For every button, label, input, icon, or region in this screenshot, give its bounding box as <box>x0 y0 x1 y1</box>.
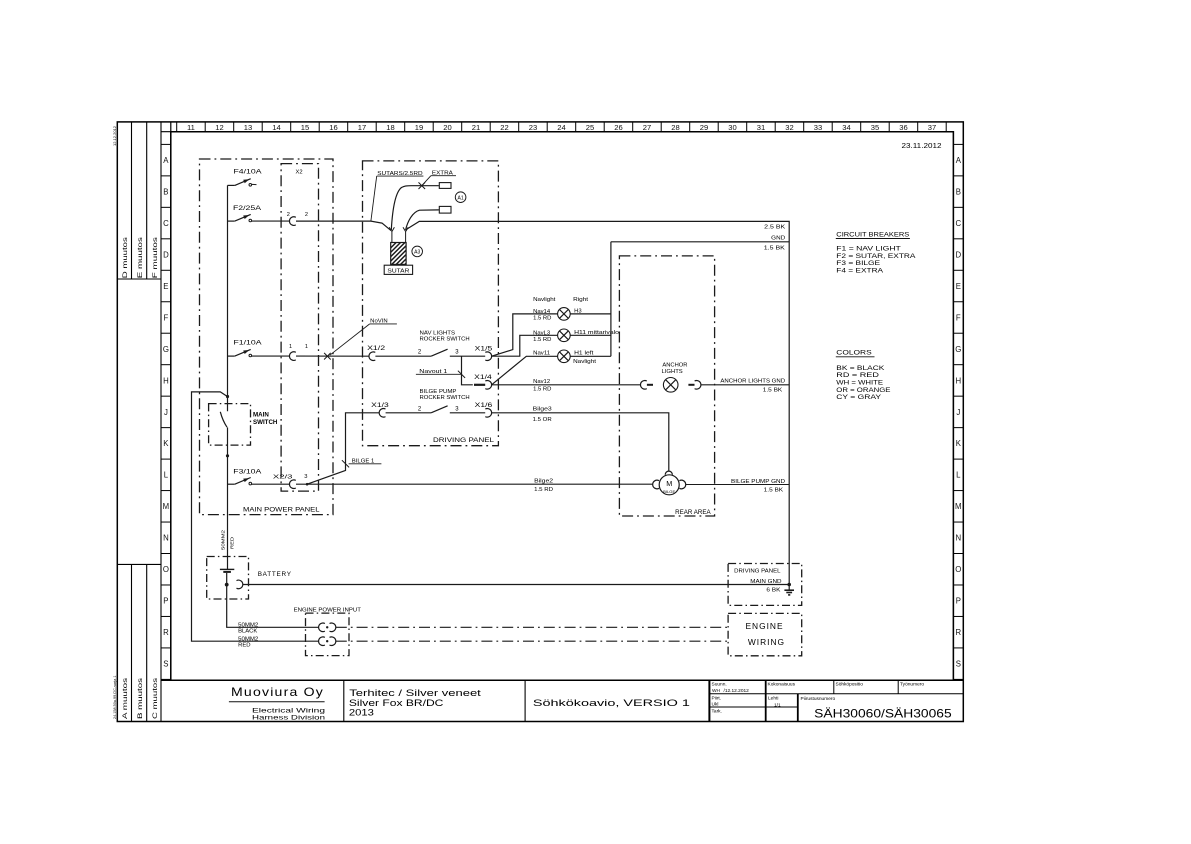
svg-text:Suunn.: Suunn. <box>712 681 727 687</box>
engine cable red run <box>336 640 728 642</box>
svg-text:A: A <box>956 156 962 165</box>
fuse F1 <box>228 349 252 356</box>
svg-text:31: 31 <box>757 123 765 132</box>
svg-text:23.11.2012: 23.11.2012 <box>902 143 942 150</box>
svg-text:H: H <box>163 376 169 385</box>
svg-text:17: 17 <box>358 123 366 132</box>
svg-text:WH = WHITE: WH = WHITE <box>836 380 883 386</box>
pump left connector <box>653 480 659 489</box>
svg-text:F3 = BILGE: F3 = BILGE <box>836 261 880 267</box>
wire F2 to X2 <box>252 220 290 222</box>
svg-text:2: 2 <box>305 212 308 218</box>
svg-text:Nav12: Nav12 <box>533 379 550 385</box>
lamp H1 <box>558 350 571 363</box>
bilge switch blade <box>431 406 448 413</box>
svg-text:19: 19 <box>415 123 423 132</box>
svg-text:X1/4: X1/4 <box>474 375 492 381</box>
svg-text:S: S <box>163 660 168 669</box>
wire switch to X1/6 <box>450 412 485 414</box>
svg-text:M: M <box>955 502 962 511</box>
svg-text:G: G <box>955 345 961 354</box>
anchor gnd wire <box>701 384 789 386</box>
svg-text:R: R <box>955 628 961 637</box>
junction node below main switch <box>226 454 229 457</box>
svg-text:F: F <box>956 313 961 322</box>
nav switch blade <box>431 349 448 356</box>
engine wiring box <box>728 613 802 655</box>
wire battery to engine black <box>227 585 319 628</box>
svg-text:MAIN: MAIN <box>253 412 269 419</box>
margin note bottom-left <box>113 676 117 719</box>
navout 1 label <box>416 369 461 375</box>
svg-text:2: 2 <box>287 212 290 218</box>
company name Muoviura Oy <box>229 686 325 721</box>
bilge 1 label <box>349 459 382 465</box>
bilge2 labels <box>534 479 553 494</box>
svg-text:18: 18 <box>386 123 394 132</box>
engine power input box <box>306 613 350 656</box>
extra wire tap mark <box>419 182 426 189</box>
anchor lights label <box>662 363 688 376</box>
title block frame <box>161 680 963 721</box>
project name cell <box>349 687 481 718</box>
svg-text:1.5 RD: 1.5 RD <box>533 387 552 393</box>
svg-text:WH: WH <box>712 688 721 694</box>
svg-text:RD = RED: RD = RED <box>836 373 880 379</box>
svg-text:2013: 2013 <box>349 706 374 717</box>
svg-text:12: 12 <box>215 123 223 132</box>
wire thick into X1/4 <box>474 384 485 386</box>
bilge3 wire to pump <box>492 413 669 472</box>
svg-text:C muutos: C muutos <box>152 678 159 719</box>
wire X1/5 to lamp H11 <box>492 335 558 356</box>
circuit breakers legend <box>836 231 916 274</box>
connector X1/2 <box>369 352 375 361</box>
fuse F3 <box>228 478 252 485</box>
svg-text:F muutos: F muutos <box>152 237 159 278</box>
fuse F4 stub <box>252 183 257 185</box>
svg-text:1.5 BK: 1.5 BK <box>763 388 783 394</box>
bilge gnd wire <box>686 484 790 486</box>
battery box <box>207 557 249 600</box>
svg-text:A3: A3 <box>414 250 420 256</box>
svg-text:1.5 OR: 1.5 OR <box>533 417 552 423</box>
bilge1 tap mark <box>342 460 349 467</box>
svg-text:Tark.: Tark. <box>712 709 722 715</box>
svg-text:X1/3: X1/3 <box>371 403 389 409</box>
wire X1/3 to switch <box>386 412 432 414</box>
wire X1/5 to lamp H3 <box>492 314 558 356</box>
svg-text:ROCKER SWITCH: ROCKER SWITCH <box>420 337 470 343</box>
svg-text:/12.12.2012: /12.12.2012 <box>724 688 750 694</box>
inner drawing frame <box>171 132 954 681</box>
svg-text:24: 24 <box>557 123 565 132</box>
svg-text:E muutos: E muutos <box>137 237 144 278</box>
svg-text:6 BK: 6 BK <box>766 587 781 593</box>
junction node above main switch <box>226 395 229 398</box>
svg-text:Navlight: Navlight <box>573 359 597 365</box>
svg-text:11: 11 <box>187 123 195 132</box>
svg-text:Electrical Wiring: Electrical Wiring <box>252 708 325 714</box>
svg-text:21: 21 <box>472 123 480 132</box>
NoVIN tap mark <box>324 353 331 360</box>
svg-text:Söhköpositio: Söhköpositio <box>836 681 864 687</box>
svg-text:C: C <box>955 219 961 228</box>
wire F1 to X2 <box>252 355 290 357</box>
svg-text:P: P <box>163 597 168 606</box>
svg-text:3: 3 <box>304 474 307 480</box>
lamp H3 <box>558 308 571 321</box>
svg-text:SÄH30060/SÄH30065: SÄH30060/SÄH30065 <box>814 708 952 721</box>
connector X1/3 <box>379 409 385 418</box>
svg-text:A: A <box>163 156 169 165</box>
svg-text:O: O <box>163 565 169 574</box>
svg-text:BATTERY: BATTERY <box>258 571 292 578</box>
svg-text:K: K <box>163 439 169 448</box>
top column-number strip <box>161 122 953 132</box>
svg-text:X1/2: X1/2 <box>367 346 386 352</box>
svg-text:GND: GND <box>771 236 785 242</box>
NoVIN label <box>330 319 397 356</box>
bilge pump rocker switch label <box>420 389 470 401</box>
svg-text:ANCHOR LIGHTS GND: ANCHOR LIGHTS GND <box>720 379 785 385</box>
svg-text:Kokonaisuus: Kokonaisuus <box>768 681 796 687</box>
svg-text:12.12.2012: 12.12.2012 <box>112 125 117 146</box>
svg-text:WIRING: WIRING <box>748 637 785 647</box>
svg-text:27: 27 <box>643 123 651 132</box>
svg-text:24.158.50a.99.DC-sarja 1: 24.158.50a.99.DC-sarja 1 <box>113 676 117 719</box>
wire switch to X1/5 <box>450 355 485 357</box>
svg-text:1.5 RD: 1.5 RD <box>534 487 553 493</box>
svg-text:Piirustusnumero: Piirustusnumero <box>801 696 836 702</box>
svg-text:1.5 BK: 1.5 BK <box>764 245 786 251</box>
wire X2 to X1/2 <box>296 355 369 357</box>
svg-text:26: 26 <box>614 123 622 132</box>
svg-text:25: 25 <box>586 123 594 132</box>
svg-text:1: 1 <box>289 344 292 350</box>
fuse F2 <box>228 214 252 221</box>
svg-text:E: E <box>163 282 168 291</box>
lamp return wires to common <box>570 242 611 356</box>
svg-text:H11 mittarivalo: H11 mittarivalo <box>574 330 619 336</box>
svg-text:M: M <box>163 502 170 511</box>
nav lamp labels <box>533 297 619 393</box>
row-letter strips <box>161 122 963 680</box>
svg-text:NAV LIGHTS: NAV LIGHTS <box>420 330 456 336</box>
svg-text:DRIVING PANEL: DRIVING PANEL <box>433 437 495 444</box>
svg-text:L: L <box>956 471 961 480</box>
svg-text:F1 = NAV LIGHT: F1 = NAV LIGHT <box>836 246 901 252</box>
fuse F4 <box>228 179 252 186</box>
svg-text:33: 33 <box>814 123 822 132</box>
svg-text:Työnumero: Työnumero <box>900 681 924 687</box>
svg-text:COLORS: COLORS <box>836 350 871 357</box>
bilge pump motor M1 <box>659 475 679 495</box>
engine input connector pin red <box>319 637 336 646</box>
svg-text:D muutos: D muutos <box>122 237 129 278</box>
revision table column lines <box>117 122 161 722</box>
svg-text:2.5 BK: 2.5 BK <box>764 225 786 231</box>
svg-text:1: 1 <box>305 344 308 350</box>
wire X2 to sutar <box>296 221 391 231</box>
main power panel box <box>200 159 334 515</box>
svg-text:Söhkökoavio, VERSIO 1: Söhkökoavio, VERSIO 1 <box>533 697 690 708</box>
driving panel box <box>363 161 499 446</box>
extra label <box>422 171 456 186</box>
main switch blade <box>220 412 227 427</box>
svg-text:F4 = EXTRA: F4 = EXTRA <box>836 269 883 275</box>
svg-text:B: B <box>956 187 961 196</box>
svg-text:N: N <box>163 534 169 543</box>
margin note top-left <box>112 125 117 146</box>
cable labels 50MM2 BLACK <box>238 623 258 635</box>
connector X2 pin 3 <box>289 480 295 489</box>
navout tap mark <box>458 371 465 378</box>
svg-text:P: P <box>956 597 961 606</box>
svg-text:30: 30 <box>728 123 736 132</box>
svg-text:F4/10A: F4/10A <box>234 169 263 176</box>
bilge1 tap junction <box>306 483 309 486</box>
svg-text:Nav11: Nav11 <box>533 350 550 356</box>
svg-text:J: J <box>164 408 168 417</box>
sutar block A3 <box>372 241 438 267</box>
connector X2 pin 2 <box>289 217 295 226</box>
svg-text:G: G <box>163 345 169 354</box>
svg-text:BLACK: BLACK <box>238 629 258 635</box>
ground symbol <box>784 585 794 595</box>
sheet outer border <box>117 122 963 722</box>
svg-text:Ukl: Ukl <box>712 702 719 708</box>
sutar pin crow feet <box>389 227 408 242</box>
svg-text:Muoviura Oy: Muoviura Oy <box>231 686 324 699</box>
svg-text:D: D <box>955 250 961 259</box>
svg-text:RED: RED <box>238 642 251 648</box>
wire engine red riser <box>192 392 319 641</box>
nav lights rocker switch label <box>420 330 470 342</box>
title block small cells <box>712 681 925 714</box>
bilge3 labels <box>533 407 552 424</box>
svg-text:L: L <box>164 471 169 480</box>
svg-text:MAIN POWER PANEL: MAIN POWER PANEL <box>243 507 320 514</box>
bilge gnd labels <box>731 479 785 494</box>
svg-text:LIGHTS: LIGHTS <box>662 369 684 375</box>
svg-text:H1 left: H1 left <box>574 350 594 356</box>
svg-text:1/1: 1/1 <box>774 703 781 709</box>
svg-text:16: 16 <box>329 123 337 132</box>
sutar label <box>371 171 424 221</box>
svg-text:Harness Division: Harness Division <box>252 715 325 721</box>
svg-text:Nav14: Nav14 <box>533 309 550 315</box>
svg-text:F1/10A: F1/10A <box>234 340 263 347</box>
svg-text:37: 37 <box>928 123 936 132</box>
wire X1/4 to lamp H1 <box>492 356 558 385</box>
svg-text:OR = ORANGE: OR = ORANGE <box>836 388 890 394</box>
svg-text:N: N <box>955 534 961 543</box>
svg-text:20: 20 <box>443 123 451 132</box>
svg-text:D: D <box>163 250 169 259</box>
device label A3 <box>412 246 423 257</box>
pump top connector <box>665 471 672 475</box>
svg-text:35: 35 <box>871 123 879 132</box>
svg-text:X1/6: X1/6 <box>475 403 493 409</box>
svg-text:28: 28 <box>671 123 679 132</box>
svg-text:A1: A1 <box>458 195 464 201</box>
driving panel main gnd box <box>728 564 802 606</box>
anchor lights lamp <box>663 378 678 393</box>
svg-text:C: C <box>163 219 169 228</box>
svg-text:K: K <box>956 439 962 448</box>
svg-text:ENGINE: ENGINE <box>745 621 783 631</box>
svg-text:J: J <box>956 408 960 417</box>
anchor gnd labels <box>720 379 785 394</box>
svg-text:15: 15 <box>301 123 309 132</box>
connector X1/6 <box>485 409 491 418</box>
svg-text:B: B <box>163 187 168 196</box>
engine cable black run <box>336 626 728 628</box>
svg-text:BILGE PUMP GND: BILGE PUMP GND <box>731 479 785 485</box>
svg-text:A muutos: A muutos <box>122 678 129 719</box>
gnd wire lamps to bus <box>611 241 789 243</box>
svg-text:34: 34 <box>842 123 850 132</box>
svg-text:BK = BLACK: BK = BLACK <box>836 366 884 372</box>
svg-text:Right: Right <box>573 297 589 303</box>
svg-text:Piirt.: Piirt. <box>712 695 722 701</box>
svg-text:E: E <box>956 282 961 291</box>
device label A1 <box>455 192 466 203</box>
svg-text:CY = GRAY: CY = GRAY <box>836 395 881 401</box>
battery B1 <box>220 569 234 584</box>
battery output connector <box>237 580 243 589</box>
svg-text:Navlight: Navlight <box>533 297 556 303</box>
revision labels A/B/C muutos <box>122 678 159 719</box>
svg-text:M: M <box>666 479 672 488</box>
svg-text:SUTAR: SUTAR <box>387 269 409 275</box>
svg-text:F: F <box>164 313 169 322</box>
main switch box <box>209 404 251 446</box>
wire sutar pin2 to lug2 <box>406 210 439 230</box>
sutar name plate <box>384 265 412 274</box>
svg-text:SWITCH: SWITCH <box>253 419 278 426</box>
svg-text:H: H <box>955 376 961 385</box>
revision labels D/E/F muutos <box>122 237 159 278</box>
pump right connector <box>679 480 685 489</box>
svg-text:O: O <box>955 565 961 574</box>
gnd bus junction <box>787 583 791 587</box>
extra terminal lug 1 <box>439 183 451 189</box>
svg-text:R: R <box>163 628 169 637</box>
anchor light connector right <box>688 381 701 390</box>
wire X1/4 to anchor light <box>492 384 641 386</box>
cable label 50MM2 RED vertical <box>221 530 227 550</box>
main switch label <box>253 412 278 427</box>
svg-text:X1/5: X1/5 <box>475 346 493 352</box>
connector X2 box <box>281 164 318 492</box>
svg-text:29: 29 <box>700 123 708 132</box>
colors legend <box>836 350 891 402</box>
cable labels 50MM2 RED <box>238 637 258 649</box>
main gnd wire 6BK <box>243 584 789 586</box>
engine input connector pin black <box>319 623 336 632</box>
lamp H11 <box>558 329 571 342</box>
svg-text:F2/25A: F2/25A <box>233 205 262 212</box>
svg-text:BILGE: BILGE <box>663 490 676 494</box>
connector X1/5 <box>485 352 491 361</box>
rear area box <box>619 256 714 516</box>
svg-text:1.5 RD: 1.5 RD <box>533 337 552 343</box>
wire bilge1 riser <box>307 413 379 484</box>
bilge2 wire X2/3 to pump <box>296 483 653 485</box>
svg-text:Bilge2: Bilge2 <box>534 479 553 485</box>
svg-text:1.5 RD: 1.5 RD <box>533 315 552 321</box>
svg-text:Lehti: Lehti <box>768 695 778 701</box>
svg-text:50MM2: 50MM2 <box>221 530 227 550</box>
connector X2 pin 1 <box>289 352 295 361</box>
svg-text:X2/3: X2/3 <box>273 474 293 480</box>
svg-text:ANCHOR: ANCHOR <box>662 363 687 369</box>
svg-text:F3/10A: F3/10A <box>233 469 262 476</box>
anchor light connector left <box>640 381 653 390</box>
svg-text:S: S <box>956 660 961 669</box>
svg-text:RED: RED <box>230 536 236 549</box>
svg-text:ENGINE POWER INPUT: ENGINE POWER INPUT <box>294 608 362 614</box>
svg-text:36: 36 <box>899 123 907 132</box>
svg-text:32: 32 <box>785 123 793 132</box>
wire sutar 2.5BK to gnd bus <box>406 221 789 584</box>
battery minus junction <box>225 583 229 587</box>
svg-text:X2: X2 <box>296 170 303 176</box>
svg-text:ROCKER SWITCH: ROCKER SWITCH <box>420 395 470 401</box>
navout tap wire down to X1/4 <box>462 356 473 385</box>
svg-text:14: 14 <box>272 123 280 132</box>
svg-text:H3: H3 <box>574 308 582 314</box>
extra terminal lug 2 <box>439 206 451 213</box>
svg-text:REAR AREA: REAR AREA <box>675 510 711 516</box>
svg-text:B muutos: B muutos <box>137 678 144 719</box>
wire F3 to X2/3 <box>252 483 290 485</box>
main +12V bus wire <box>227 185 229 569</box>
svg-text:23: 23 <box>529 123 537 132</box>
svg-text:DRIVING PANEL: DRIVING PANEL <box>734 568 781 574</box>
svg-text:Bilge3: Bilge3 <box>533 407 552 413</box>
connector X1/4 <box>485 381 491 390</box>
svg-text:22: 22 <box>500 123 508 132</box>
svg-text:CIRCUIT BREAKERS: CIRCUIT BREAKERS <box>836 231 909 238</box>
wire X1/2 to switch <box>375 355 431 357</box>
wire sutar pin1 to extra terminal <box>391 186 439 230</box>
svg-text:F2 = SUTAR, EXTRA: F2 = SUTAR, EXTRA <box>836 254 915 260</box>
svg-text:NavL3: NavL3 <box>533 331 550 337</box>
svg-text:13: 13 <box>244 123 252 132</box>
svg-text:1.5 BK: 1.5 BK <box>764 488 784 494</box>
